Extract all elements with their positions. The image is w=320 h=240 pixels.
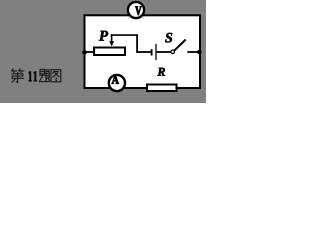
node: middle branch right junction — [197, 50, 202, 55]
voltmeter V — [128, 2, 144, 18]
ammeter A — [109, 75, 125, 91]
label S — [165, 33, 172, 43]
wire: battery to switch — [157, 51, 171, 53]
caption character 第 — [12, 69, 24, 83]
switch S pivot — [171, 50, 175, 54]
label P — [99, 31, 108, 41]
rheostat P body — [94, 48, 125, 56]
ammeter letter A — [112, 76, 119, 84]
caption character 图 — [51, 70, 61, 82]
battery positive plate (long) — [155, 44, 157, 60]
caption character 题 — [39, 69, 49, 81]
wire: switch to right junction — [187, 51, 200, 53]
label R — [157, 68, 165, 76]
resistor R body — [147, 85, 177, 92]
switch S lever — [174, 40, 186, 51]
voltmeter letter V — [135, 7, 141, 16]
page background — [0, 0, 206, 103]
rheostat slider arrow head — [109, 41, 114, 46]
rheostat slider arrow shaft — [111, 34, 113, 42]
caption number 11 — [28, 71, 32, 81]
wire: slider vertical drop — [136, 34, 138, 53]
wire: to battery — [136, 51, 151, 53]
battery negative plate (short) — [151, 49, 153, 55]
wire: slider horizontal — [111, 34, 138, 36]
figure frame / circuit loop wire rectangle — [85, 15, 201, 88]
wire: left junction to rheostat — [85, 51, 95, 53]
node: middle branch left junction — [82, 50, 87, 55]
